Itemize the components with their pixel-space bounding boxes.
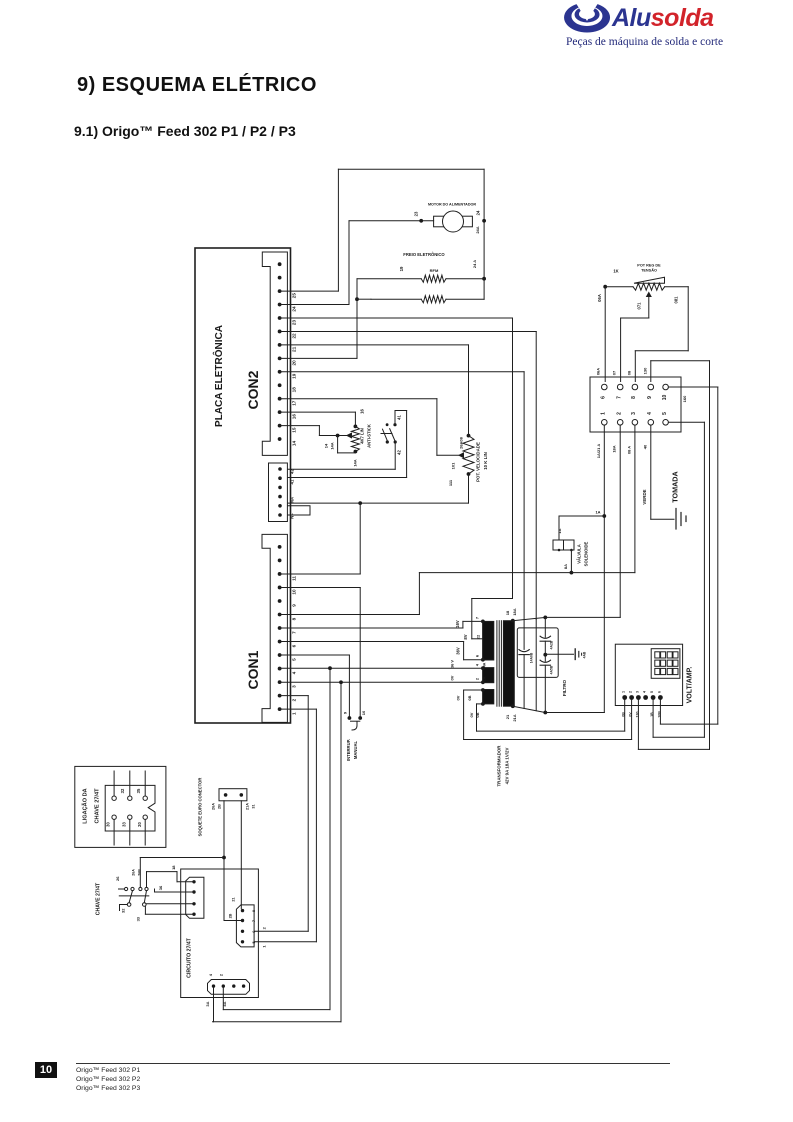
- trafo bottom node: [511, 704, 515, 708]
- svg-text:0V: 0V: [455, 695, 460, 700]
- svg-text:42V 9A 18A 1V/2V: 42V 9A 18A 1V/2V: [505, 748, 510, 785]
- aux connector on board: [269, 463, 288, 522]
- svg-text:0B: 0B: [467, 695, 472, 700]
- svg-text:16V: 16V: [455, 620, 460, 628]
- wire CON2 pin22 rail B: [280, 330, 537, 332]
- svg-text:111: 111: [448, 479, 453, 486]
- wire pot left to pin6: [604, 287, 606, 382]
- tap 7 16V to CON1 pin7: [481, 620, 485, 624]
- svg-text:33: 33: [136, 916, 141, 921]
- wire pot speed bottom to CON1 pin11: [468, 474, 470, 503]
- svg-text:7: 7: [474, 616, 479, 619]
- transformer T1 primary bars: [483, 621, 494, 660]
- svg-text:VERDE: VERDE: [642, 489, 647, 504]
- svg-text:2: 2: [475, 678, 479, 680]
- wire chave c2 to circ pin4: [144, 906, 146, 914]
- svg-text:20: 20: [137, 822, 142, 827]
- svg-text:07: 07: [612, 370, 617, 375]
- svg-text:8: 8: [292, 617, 297, 620]
- svg-text:18A: 18A: [512, 608, 517, 615]
- svg-text:15: 15: [292, 427, 297, 433]
- chave inner connector: [105, 785, 155, 831]
- svg-text:RFM: RFM: [430, 268, 439, 273]
- svg-text:26: 26: [115, 876, 120, 881]
- wire CON2 pin24 to motor: [280, 304, 349, 306]
- svg-text:1: 1: [261, 945, 266, 948]
- svg-text:1: 1: [292, 712, 297, 715]
- svg-text:1A: 1A: [595, 510, 600, 515]
- svg-text:9: 9: [647, 396, 653, 399]
- svg-text:4AB: 4AB: [583, 651, 587, 658]
- svg-text:20: 20: [292, 360, 297, 366]
- svg-text:160: 160: [682, 395, 687, 402]
- svg-text:1K: 1K: [613, 269, 618, 274]
- wire resistors to CON2 pin20: [356, 279, 358, 359]
- wire CON2 pin16 to pot antistick: [280, 411, 356, 413]
- svg-text:16: 16: [292, 414, 297, 420]
- wire TOMADA pin2 down: [619, 425, 621, 617]
- svg-text:5: 5: [662, 412, 668, 415]
- svg-text:4A: 4A: [482, 662, 486, 667]
- trigger switch: [348, 716, 352, 720]
- svg-text:POT REG DE: POT REG DE: [637, 264, 661, 268]
- wire TOMADA pin10 right: [668, 386, 717, 388]
- svg-text:NA: NA: [290, 497, 295, 503]
- svg-text:2: 2: [261, 926, 266, 929]
- svg-text:21: 21: [232, 897, 236, 901]
- svg-text:4A2B: 4A2B: [550, 640, 554, 649]
- svg-text:08: 08: [627, 370, 632, 375]
- tap 0V lower to voltamp p1: [481, 702, 485, 706]
- svg-text:5: 5: [292, 658, 297, 661]
- svg-text:7: 7: [252, 920, 256, 922]
- svg-text:2B: 2B: [218, 804, 222, 809]
- svg-text:MOTOR DO ALIMENTADOR: MOTOR DO ALIMENTADOR: [428, 203, 476, 207]
- rail B lower part: [535, 619, 537, 710]
- svg-text:23: 23: [292, 320, 297, 326]
- svg-text:1: 1: [601, 412, 607, 415]
- svg-text:101: 101: [450, 462, 455, 469]
- svg-text:4K7 LIN: 4K7 LIN: [360, 428, 365, 444]
- svg-text:32: 32: [121, 908, 126, 913]
- svg-text:14A: 14A: [329, 442, 334, 449]
- antistick wiper arrow: [347, 433, 352, 438]
- svg-text:24: 24: [292, 306, 297, 312]
- svg-text:11: 11: [292, 576, 297, 581]
- svg-text:14: 14: [323, 443, 328, 448]
- svg-text:3: 3: [292, 685, 297, 688]
- svg-text:1A: 1A: [557, 528, 562, 533]
- potentiometer POT VELOCIDADE: [467, 434, 471, 438]
- svg-text:FREIO ELETRÔNICO: FREIO ELETRÔNICO: [403, 252, 445, 257]
- svg-text:16: 16: [359, 409, 364, 414]
- filter box FILTRO: [517, 628, 558, 678]
- svg-text:33: 33: [122, 822, 127, 827]
- potentiometer POT REG TENSAO: [603, 285, 607, 289]
- svg-text:6: 6: [657, 691, 661, 693]
- svg-text:ANTI-STICK: ANTI-STICK: [367, 424, 372, 448]
- svg-text:41: 41: [397, 415, 402, 420]
- wire switch 42 to aux: [394, 442, 396, 469]
- wire TOMADA pin4 to ground: [650, 425, 652, 519]
- wire CON1 pin8: [418, 573, 420, 615]
- svg-text:26A: 26A: [132, 869, 136, 876]
- svg-text:42: 42: [397, 450, 402, 455]
- svg-text:2: 2: [629, 691, 633, 693]
- svg-text:10: 10: [662, 395, 668, 401]
- svg-text:36: 36: [158, 885, 163, 890]
- wire soquete right pin: [240, 801, 242, 909]
- svg-text:SOLENOIDE: SOLENOIDE: [584, 541, 589, 566]
- svg-text:10: 10: [361, 710, 366, 715]
- svg-text:4: 4: [643, 691, 647, 693]
- wire circ bottom pin2: [222, 988, 224, 1010]
- CON1 pins: [278, 545, 282, 549]
- svg-text:26B: 26B: [138, 869, 142, 876]
- svg-text:24: 24: [476, 210, 481, 215]
- meter pin wires: [624, 700, 626, 731]
- svg-text:071: 071: [637, 302, 642, 310]
- svg-text:7: 7: [292, 631, 297, 634]
- connector CON2: [262, 252, 287, 455]
- wire bottom resistor joins: [357, 298, 371, 300]
- svg-text:14A: 14A: [353, 459, 358, 466]
- meter VOLT/AMP box: [615, 644, 682, 705]
- svg-text:17: 17: [292, 400, 297, 406]
- svg-text:0B: 0B: [622, 712, 626, 717]
- rail A lower part: [523, 655, 525, 709]
- svg-text:CON2: CON2: [245, 370, 261, 409]
- wire pot right to pin8: [687, 287, 689, 351]
- wire TOMADA pin1 down: [603, 425, 605, 712]
- potentiometer 4K7 ANTI-STICK: [354, 425, 358, 429]
- wire CON2 pin21 to pot speed: [280, 344, 469, 346]
- svg-text:081: 081: [674, 296, 679, 304]
- wire CON1 pin3 branch down: [340, 682, 342, 1021]
- svg-text:35: 35: [136, 788, 141, 793]
- wire CON1 pin5 to trigger: [280, 654, 350, 656]
- pot speed wiper arrow: [459, 453, 464, 458]
- wire CON1 pin10 to trigger: [280, 586, 361, 588]
- tap 0V upper to voltamp p2: [481, 688, 485, 692]
- filter ground: [545, 653, 573, 655]
- svg-text:2A: 2A: [482, 676, 486, 681]
- svg-text:1B: 1B: [650, 712, 654, 717]
- svg-text:8: 8: [631, 396, 637, 399]
- svg-text:CIRCUITO 27/4T: CIRCUITO 27/4T: [187, 937, 193, 978]
- svg-text:6: 6: [474, 654, 479, 657]
- tap 4 to CON1 pin4: [481, 666, 485, 670]
- connector CON1: [262, 534, 287, 722]
- chave stubs: [119, 888, 125, 890]
- svg-text:4A5B: 4A5B: [550, 665, 554, 674]
- pot tensao wiper: [647, 293, 651, 297]
- svg-text:0V: 0V: [629, 712, 633, 717]
- svg-text:14A0B: 14A0B: [530, 652, 534, 663]
- svg-text:36V: 36V: [455, 647, 460, 655]
- meter pins: [622, 695, 627, 700]
- box LIGACAO DA CHAVE: [75, 766, 166, 847]
- wire TOMADA pin5 right: [668, 421, 704, 423]
- wire chave contact4 to circ pin1: [146, 872, 148, 888]
- wire TOMADA pin9 down chain: [709, 361, 711, 750]
- svg-text:6: 6: [292, 644, 297, 647]
- svg-text:5: 5: [252, 942, 256, 944]
- svg-text:0B: 0B: [475, 712, 480, 717]
- wire to circ right conn pin2: [223, 858, 225, 921]
- svg-text:41: 41: [290, 479, 295, 484]
- svg-text:1A/21 A: 1A/21 A: [596, 444, 601, 459]
- wire chave c2 to circ pin3: [146, 903, 193, 905]
- connector TOMADA: [590, 377, 681, 432]
- svg-text:18: 18: [171, 865, 176, 870]
- svg-text:2: 2: [220, 974, 224, 976]
- wire circ bottom pin1: [213, 988, 215, 1022]
- wire solenoid row to TOMADA pin3: [419, 572, 635, 574]
- tap 2 to CON1 pin3: [481, 680, 485, 684]
- svg-text:LIGAÇÃO DA: LIGAÇÃO DA: [82, 788, 89, 823]
- svg-text:14: 14: [292, 441, 297, 447]
- svg-text:21A: 21A: [512, 714, 517, 721]
- svg-text:3: 3: [631, 412, 637, 415]
- wire TOMADA pin9 up: [650, 361, 652, 382]
- svg-text:6: 6: [252, 931, 256, 933]
- transformer secondary bar: [503, 621, 514, 707]
- svg-text:26A: 26A: [212, 803, 216, 810]
- resistor RFM1: [357, 278, 421, 280]
- circ connector bottom: [208, 980, 250, 995]
- circ connector right: [236, 905, 254, 947]
- svg-text:TOMADA: TOMADA: [671, 471, 680, 502]
- ground: [675, 509, 677, 530]
- svg-text:130: 130: [635, 712, 639, 718]
- svg-text:19: 19: [399, 266, 404, 271]
- aux jumper: [288, 506, 310, 515]
- svg-text:06A: 06A: [596, 368, 601, 375]
- svg-text:VOLT/AMP.: VOLT/AMP.: [687, 667, 694, 704]
- wire CON2 pin19 rail A: [280, 371, 524, 373]
- svg-text:18: 18: [505, 610, 510, 615]
- svg-text:9: 9: [342, 711, 347, 714]
- capacitor column C2 C3: [544, 617, 546, 637]
- svg-text:CHAVE 27/4T: CHAVE 27/4T: [95, 788, 101, 824]
- wire CON2 pin17 to pot speed wiper: [280, 398, 437, 400]
- svg-text:4: 4: [209, 973, 213, 976]
- svg-text:5: 5: [650, 691, 654, 693]
- svg-text:26A08: 26A08: [458, 436, 463, 449]
- wire CON2 pin15 to wiper: [280, 425, 320, 427]
- svg-text:INTERRUP.: INTERRUP.: [346, 739, 351, 761]
- svg-text:36 V: 36 V: [450, 660, 455, 669]
- svg-text:CHAVE 27/4T: CHAVE 27/4T: [96, 882, 102, 915]
- svg-text:18: 18: [292, 387, 297, 393]
- wire switch 41 to aux: [394, 411, 396, 425]
- svg-text:19: 19: [292, 373, 297, 379]
- transformer core: [496, 621, 498, 707]
- motor M1: [434, 216, 445, 227]
- svg-text:21A: 21A: [246, 803, 250, 810]
- svg-text:8V: 8V: [463, 634, 468, 639]
- svg-text:MANUAL: MANUAL: [353, 740, 358, 759]
- capacitor C1: [519, 650, 529, 652]
- CON2 pins: [278, 262, 282, 266]
- svg-text:18A: 18A: [612, 445, 617, 452]
- wire chave to circ pin2: [154, 889, 156, 892]
- svg-text:4: 4: [475, 663, 479, 666]
- svg-text:24A: 24A: [475, 226, 480, 233]
- wire CON1 pin1 down: [280, 708, 317, 710]
- svg-text:08 A: 08 A: [627, 446, 632, 454]
- svg-text:32: 32: [120, 788, 125, 793]
- box CIRCUITO 27/4T: [181, 869, 259, 998]
- wire CON2 pin23 to trafo tap22: [280, 317, 513, 319]
- node motor left: [419, 219, 423, 223]
- svg-text:8A: 8A: [563, 564, 568, 569]
- wire TOMADA pin3 down: [634, 425, 636, 572]
- svg-text:TENSÃO: TENSÃO: [641, 268, 657, 273]
- svg-text:21: 21: [292, 346, 297, 352]
- svg-text:10: 10: [292, 589, 297, 595]
- PLACA ELETRONICA board: [195, 248, 291, 723]
- svg-text:21: 21: [505, 714, 510, 719]
- svg-text:23: 23: [414, 211, 419, 216]
- wire pot bottom loop: [337, 436, 339, 453]
- svg-text:0V: 0V: [469, 712, 474, 717]
- svg-text:25: 25: [292, 293, 297, 299]
- circ connector left: [186, 877, 204, 918]
- svg-text:PLACA ELETRÔNICA: PLACA ELETRÔNICA: [212, 325, 225, 427]
- svg-text:2B: 2B: [229, 913, 233, 918]
- svg-text:22: 22: [476, 634, 481, 639]
- meter display bezel: [651, 649, 680, 679]
- svg-text:2: 2: [617, 412, 623, 415]
- trafo top node: [511, 619, 515, 623]
- svg-text:POT. VELOCIDADE: POT. VELOCIDADE: [476, 442, 481, 482]
- svg-text:130: 130: [643, 367, 648, 374]
- svg-text:TRANSFORMADOR: TRANSFORMADOR: [497, 745, 502, 787]
- svg-text:1: 1: [622, 691, 626, 693]
- svg-text:3A: 3A: [205, 1001, 210, 1006]
- svg-text:9: 9: [292, 604, 297, 607]
- svg-text:SOQUETE EURO CONECTOR: SOQUETE EURO CONECTOR: [198, 778, 203, 837]
- svg-text:40: 40: [643, 444, 648, 449]
- svg-text:31: 31: [252, 804, 256, 808]
- svg-text:VÁLVULA: VÁLVULA: [577, 544, 582, 563]
- svg-text:0V: 0V: [450, 675, 455, 680]
- svg-text:FILTRO: FILTRO: [562, 679, 567, 696]
- wire motor right vertical: [483, 169, 485, 299]
- svg-text:22: 22: [292, 333, 297, 339]
- svg-text:CON1: CON1: [245, 650, 261, 689]
- wire CON1 pin4 branch down: [329, 668, 331, 1009]
- svg-text:10 K LIN: 10 K LIN: [483, 452, 488, 470]
- svg-text:4: 4: [647, 412, 653, 415]
- svg-text:3: 3: [635, 691, 639, 693]
- svg-text:10B: 10B: [657, 711, 661, 718]
- wire soquete left pin: [223, 801, 225, 858]
- switch ANTI-STICK: [386, 423, 389, 426]
- svg-text:NF: NF: [290, 513, 295, 519]
- svg-text:06A: 06A: [597, 294, 602, 302]
- valve solenoid: [553, 540, 574, 550]
- resistor RFM2: [371, 298, 421, 300]
- svg-text:8: 8: [252, 910, 256, 912]
- svg-text:2: 2: [292, 698, 297, 701]
- svg-text:6: 6: [601, 396, 607, 399]
- svg-text:24 A: 24 A: [472, 260, 477, 268]
- wire CON1 pin2 down: [280, 695, 309, 697]
- svg-text:7: 7: [617, 396, 623, 399]
- svg-text:4: 4: [292, 671, 297, 674]
- tap 6 36V to CON1 pin6: [481, 658, 485, 662]
- svg-text:30: 30: [106, 822, 111, 827]
- svg-text:4A: 4A: [222, 1001, 227, 1006]
- wire CON2 pin25 to top rail: [280, 290, 339, 292]
